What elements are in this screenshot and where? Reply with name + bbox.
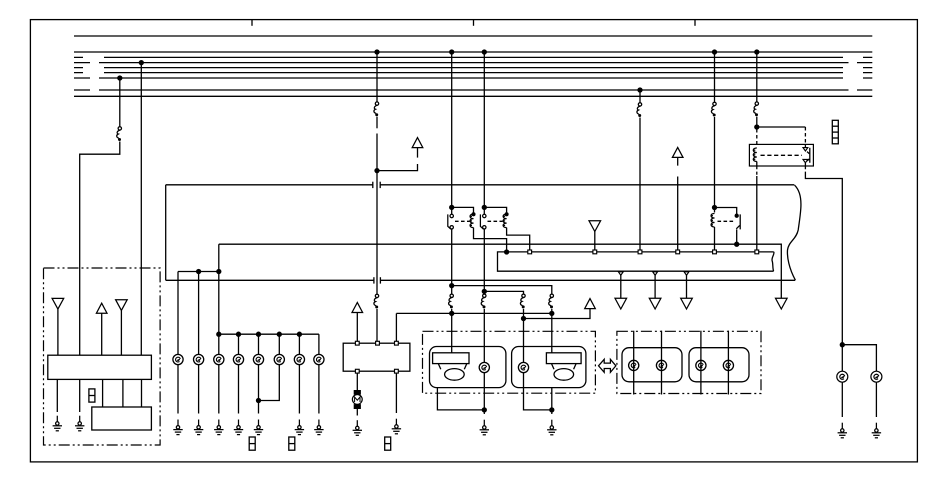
wire lamp4 drop — [238, 334, 240, 354]
node bus2 c — [257, 332, 261, 336]
wire switch b2 down — [395, 373, 397, 413]
node y=318 — [522, 317, 526, 321]
bus wire 4 — [74, 62, 872, 64]
wire R4 contact bottom — [804, 163, 806, 166]
wire horizontal y=185 — [166, 184, 795, 186]
bus wire 6 — [74, 72, 872, 74]
wire motor feed — [356, 373, 358, 390]
node bus2 e — [297, 332, 301, 336]
wire drop x=640 — [639, 90, 641, 103]
relay R3 coil — [711, 213, 715, 227]
border tick 2 — [473, 20, 475, 26]
arrow up A2 — [96, 303, 107, 313]
wire lamp7 drop — [298, 334, 300, 354]
tick break y=280 left — [373, 277, 375, 283]
relay R2 coil — [503, 214, 507, 228]
relay R4 contact mark top — [803, 148, 808, 151]
terminal mark D2 — [653, 272, 658, 275]
wire x=805 jog right — [805, 173, 842, 345]
fuse F1 — [117, 127, 122, 141]
fuse row link y=291 — [484, 291, 523, 294]
terminal S1 b1 — [355, 369, 359, 373]
ground G12 — [480, 420, 489, 435]
arrow up B1 — [412, 138, 423, 148]
headlight box (dash-dot) left — [423, 331, 596, 393]
wire U1 pin5 down — [141, 379, 143, 407]
wire B1 out jog — [437, 388, 484, 410]
fuse F5 — [481, 294, 486, 308]
relay R3 link wire — [715, 208, 737, 215]
ground G4 — [194, 420, 203, 435]
inner block U2 — [92, 407, 152, 430]
wire stem A1 — [57, 309, 59, 355]
wire x=714 mid — [714, 117, 716, 212]
relay R2 coil out wire — [507, 228, 530, 250]
node fuse row 1 — [450, 284, 454, 288]
lamp L12 — [656, 360, 666, 370]
fuse F6 — [520, 294, 525, 308]
fuse F10 — [754, 102, 759, 116]
node on bus at 377 — [375, 50, 379, 54]
terminal mark D1 — [618, 272, 623, 275]
lamp L6 — [274, 354, 284, 364]
lamp L2 — [194, 354, 204, 364]
wire L4 down — [238, 365, 240, 414]
wire x=396 corner — [395, 313, 397, 341]
border tick 3 — [694, 20, 696, 26]
node on bus at 141 — [139, 61, 143, 65]
ground G13 — [547, 420, 556, 435]
bus wire 1 — [74, 35, 872, 37]
arrow up C1 — [585, 299, 596, 309]
ground G9 — [314, 420, 323, 435]
node fuse row 2 — [482, 289, 486, 293]
relay R2 dashed link — [488, 220, 503, 222]
fuse row link y=285 — [452, 286, 552, 294]
lamp L8 — [314, 354, 324, 364]
ground G14 — [838, 423, 847, 438]
node x=377 y=170 — [375, 169, 379, 173]
bulb B2 — [546, 353, 581, 380]
wire stem A3 — [120, 310, 122, 355]
node bus2 d — [277, 332, 281, 336]
wire x=757 to node — [756, 117, 758, 129]
wire x=523 to lamp — [523, 309, 525, 362]
wire vertical x=166 — [165, 185, 167, 280]
lamp L5 — [253, 354, 263, 364]
wire drop x=452 — [451, 52, 453, 214]
relay R2 coil top dot — [505, 213, 508, 216]
lamp L10 — [518, 362, 528, 372]
dashed wire x=757 below box — [756, 166, 758, 176]
arrow down D4 — [776, 298, 788, 309]
wire HL4 pin1 — [700, 331, 702, 395]
node relay R1 — [450, 205, 454, 209]
wire to arrow B1 — [377, 164, 418, 171]
node lamp bus 1 — [197, 270, 201, 274]
wire B2 out — [551, 388, 553, 414]
wire motor down — [356, 409, 358, 416]
tick break y=280 right — [379, 277, 381, 283]
lamp L13 — [696, 360, 706, 370]
node bus2 a — [217, 332, 221, 336]
arrow down C3 — [589, 221, 601, 232]
node relay R2 — [482, 205, 486, 209]
arrow down A3 — [116, 300, 128, 311]
bulb B1 — [433, 353, 469, 380]
wire U1 pin4 down — [122, 379, 124, 407]
wire x=377 long — [376, 134, 378, 295]
wire drop x=377 top — [376, 52, 378, 102]
wire right lamps link — [842, 345, 876, 372]
page tear curve — [787, 185, 801, 280]
node relay R3 — [713, 206, 717, 210]
arrow down A1 — [52, 298, 64, 309]
wire stem B1 — [417, 148, 419, 158]
wire HL4 pin2 — [727, 331, 729, 395]
dashed wire x=805 — [804, 127, 806, 144]
dashed wire x=805 below box — [804, 166, 806, 173]
relay R1 link wire — [452, 207, 474, 214]
lamp L1 — [173, 354, 183, 364]
terminal S1 t3 — [395, 341, 399, 345]
relay R2 switch — [480, 214, 486, 229]
connector J2 — [249, 437, 255, 450]
node x=552 y=313 — [550, 311, 554, 315]
relay R1 coil out wire — [474, 228, 507, 252]
main connector box — [498, 252, 774, 271]
wire horizontal y=280 — [166, 279, 796, 281]
terminal mark D3 — [684, 272, 689, 275]
lamp bus y=271 — [178, 271, 219, 273]
component box (dash-dot) left — [44, 268, 161, 445]
relay R3 dashed link — [718, 220, 735, 222]
wire HL3 pin2 — [661, 331, 663, 395]
wire L16 down — [875, 382, 877, 417]
ground G2 — [75, 416, 84, 431]
ground G11 — [392, 419, 401, 434]
wire U1 pin2 down — [79, 379, 81, 412]
headlight box (dash-dot) right — [617, 331, 761, 393]
wire lamp6 drop — [278, 334, 280, 354]
wire stem A2 — [101, 313, 103, 355]
wire L7 down — [298, 365, 300, 414]
wire L1 down — [177, 365, 179, 414]
node bus2 b — [237, 332, 241, 336]
arrow down D2 — [649, 298, 661, 309]
terminal T6 — [713, 250, 717, 254]
bus wire 3 — [74, 56, 872, 58]
wire drop x=141 — [140, 63, 142, 356]
node lamp bus 2 — [217, 270, 221, 274]
wire stem C3 — [594, 232, 596, 250]
node y=244 relay out — [735, 242, 739, 246]
wire x=757 to connector — [756, 176, 758, 250]
wire x=452 mid — [451, 229, 453, 294]
wire L6 jog — [259, 365, 280, 401]
terminal T7 — [755, 250, 759, 254]
arrow down D3 — [681, 298, 693, 309]
wire L5 down — [258, 365, 260, 414]
wire L8 down — [318, 365, 320, 414]
wire U1 pin1 down — [56, 379, 58, 412]
wire drop x=484 — [483, 52, 485, 214]
bus wire 5 — [74, 67, 872, 69]
ground G8 — [295, 420, 304, 435]
wire L9 down — [483, 373, 485, 414]
wire drop x=714 — [714, 52, 716, 102]
ground G7 — [254, 420, 263, 435]
dashed wire x=757 — [756, 129, 758, 144]
terminal S1 t2 — [376, 341, 380, 345]
node right lamps — [840, 343, 844, 347]
terminal T3 — [593, 250, 597, 254]
relay R3 contact dot — [735, 214, 738, 217]
fuse F9 — [711, 102, 716, 116]
node on bus at 452 — [450, 50, 454, 54]
lamp L3 — [214, 354, 224, 364]
bus wire 9 — [74, 95, 872, 97]
terminal T4 — [638, 250, 642, 254]
connector J3 — [289, 437, 295, 450]
node on bus at 757 — [755, 50, 759, 54]
connector box torn edge — [772, 252, 774, 271]
terminal S1 t1 — [355, 341, 359, 345]
wire lamp5 drop — [258, 334, 260, 354]
wire bus y=313 — [396, 312, 551, 314]
wire drop x=757 — [756, 52, 758, 102]
wire x=484 mid — [483, 229, 485, 294]
fuse F4 — [449, 294, 454, 308]
arrow down D1 — [615, 298, 627, 309]
wire L10 out jog — [524, 373, 552, 410]
wire jog to x=80 — [80, 142, 120, 356]
wire U1 pin3 down — [102, 379, 104, 407]
relay R4 contact mark bottom — [803, 159, 808, 162]
wire stem C2 — [356, 313, 358, 342]
wire right lamp1 drop — [841, 345, 843, 372]
wire stem C4 — [677, 157, 679, 249]
ground G1 — [53, 416, 62, 431]
relay R4 contact top — [804, 144, 806, 147]
tick break y=185 right — [379, 182, 381, 188]
wire L2 down — [198, 365, 200, 414]
wire lamp1 drop — [177, 272, 179, 355]
ground G3 — [173, 420, 182, 435]
double arrow symbol — [599, 359, 616, 372]
relay R4 dashed link — [761, 154, 803, 156]
fuse F8 — [637, 103, 642, 117]
node gnd join 2 — [550, 408, 554, 412]
node on bus at 484 — [482, 50, 486, 54]
relay R1 dashed link — [455, 220, 470, 222]
border tick 1 — [251, 20, 253, 26]
wire lamp2 drop — [198, 272, 200, 355]
connector J1 — [89, 389, 95, 402]
arrow down D3 stem — [686, 271, 688, 298]
arrow up C4 — [672, 147, 683, 157]
relay R1 switch — [448, 214, 454, 229]
arrow down D1 stem — [620, 271, 622, 298]
bus wire 2 — [74, 51, 872, 53]
wire y=318 to arrow — [524, 309, 591, 319]
housing HL3 — [622, 348, 682, 382]
wire x=640 long — [639, 118, 641, 250]
wire y=244 — [219, 244, 782, 298]
ground G6 — [234, 420, 243, 435]
fuse F7 — [549, 294, 554, 308]
connector strip J5 — [832, 120, 838, 144]
lamp L9 — [479, 362, 489, 372]
lamp L7 — [294, 354, 304, 364]
headlamp housing HL1 — [430, 347, 506, 388]
arrow down D2 stem — [654, 271, 656, 298]
node L6 join — [257, 399, 261, 403]
ground G10 — [353, 420, 362, 435]
node x=757 y=127 — [755, 125, 759, 129]
ground G15 — [872, 423, 881, 438]
fuse F2 — [374, 102, 379, 116]
terminal T2 — [528, 250, 532, 254]
relay R2 link wire — [484, 207, 506, 214]
terminal S1 b2 — [395, 369, 399, 373]
lamp L11 — [629, 360, 639, 370]
relay R3 contact blade — [736, 214, 740, 229]
terminal T1 node — [505, 250, 509, 254]
wire drop x=219 — [218, 244, 220, 354]
relay R1 coil top dot — [472, 213, 475, 216]
lamp L15 — [837, 371, 848, 382]
wire L3 down — [218, 365, 220, 414]
ground G5 — [214, 420, 223, 435]
bus wire 8 — [74, 89, 872, 91]
headlamp housing HL2 — [512, 347, 586, 388]
terminal T5 — [676, 250, 680, 254]
tick break y=185 left — [372, 182, 374, 188]
wire link y=127 — [757, 126, 806, 128]
relay R4 coil — [753, 148, 757, 162]
lamp bus y=334 — [219, 333, 319, 335]
housing HL4 — [689, 348, 749, 382]
wire R3 contact down — [736, 229, 738, 244]
wire R3 coil down — [714, 227, 716, 250]
wire x=452 to node — [451, 309, 453, 353]
node on bus at 714 — [713, 50, 717, 54]
relay box R4 — [749, 144, 813, 166]
fuse F3 — [374, 294, 379, 308]
arrow up C2 — [352, 303, 363, 313]
node gnd join 1 — [482, 408, 486, 412]
node on bus at 120 — [118, 76, 122, 80]
wire lamp8 drop — [318, 334, 320, 354]
node y=313 — [450, 311, 454, 315]
relay R4 coil tail — [756, 162, 758, 167]
wire L15 down — [841, 382, 843, 417]
bus wire 7 — [74, 77, 872, 79]
wire x=552 — [551, 309, 553, 353]
lamp L4 — [233, 354, 243, 364]
lamp L16 — [871, 371, 882, 382]
lamp L14 — [723, 360, 733, 370]
wire x=377 to switch — [376, 309, 378, 341]
connector J4 — [385, 437, 391, 450]
relay R4 blade — [807, 148, 810, 163]
wire x=484 to lamp — [483, 309, 485, 362]
wire drop x=120 — [119, 78, 121, 127]
switch box S1 — [343, 343, 410, 371]
relay R1 coil — [470, 214, 474, 228]
wire x=377 segment — [376, 117, 378, 129]
wire HL3 pin1 — [633, 331, 635, 395]
motor M1 — [352, 390, 362, 409]
node on bus at 640 — [638, 88, 642, 92]
inner block U1 — [48, 355, 152, 379]
